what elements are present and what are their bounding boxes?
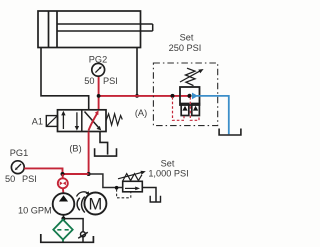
gauge PG1 (11, 161, 24, 174)
node junction pump discharge right (87, 172, 91, 176)
coupling shaft (77, 197, 85, 213)
check cartridge right (192, 104, 200, 116)
motor M1 (84, 193, 106, 215)
wire pilot dashed (relief) (117, 189, 131, 198)
wire red pump node link (63, 173, 89, 175)
directional valve left-box up arrow (62, 114, 64, 129)
check valve CV1 (78, 232, 88, 242)
sequence valve adjust arrow (180, 71, 201, 82)
svg-text:A1: A1 (32, 117, 43, 127)
wire relief outlet (142, 188, 156, 202)
gauge PG2 (92, 63, 105, 76)
wire red pilot dashed (173, 97, 200, 120)
wire rod-end drop line (136, 48, 138, 96)
directional valve crossed path (red highlighted) (89, 113, 98, 131)
wire pump suction stub (63, 215, 65, 219)
shutoff valve (red circle) (58, 174, 68, 193)
check cartridge left (181, 104, 189, 116)
directional valve spring (106, 114, 122, 125)
sequence valve V2 block (180, 87, 200, 105)
pump P1 (53, 193, 75, 215)
wire to relief valve (89, 174, 123, 188)
svg-text:PG2: PG2 (89, 54, 107, 64)
dashed enclosure (sequence valve) (153, 63, 217, 126)
node junction pilot (115, 186, 119, 190)
blue outlet arrow (192, 93, 198, 100)
svg-text:10 GPM: 10 GPM (18, 206, 52, 216)
wire red riser to PG2 / valve port (98, 76, 100, 110)
tank symbol (blue return) (219, 129, 241, 136)
wire red PG1 branch (24, 168, 62, 174)
relief valve adjust arrow (118, 172, 143, 179)
svg-text:PG1: PG1 (10, 148, 28, 158)
svg-text:(A): (A) (135, 108, 147, 118)
tank T1 (reservoir) (41, 234, 94, 242)
node junction PG2 tee (97, 94, 101, 98)
cylinder C1 body (38, 11, 141, 48)
svg-text:Set: Set (161, 158, 175, 168)
filter F1 (suction strainer) (53, 219, 72, 242)
svg-text:50: 50 (84, 76, 94, 86)
directional valve DV1 body (58, 110, 107, 132)
svg-text:250 PSI: 250 PSI (169, 43, 202, 53)
relief valve RV1 spring (123, 174, 142, 181)
wire drain to tank (valve T port) (100, 132, 108, 155)
tank symbol (valve drain) (95, 148, 117, 156)
svg-text:PSI: PSI (22, 174, 37, 184)
solenoid A1 (46, 116, 57, 127)
wire red pressure riser (B) (88, 132, 90, 175)
node junction pump discharge left (61, 172, 65, 176)
wire red main line (rod side, y=95.9) (99, 95, 190, 97)
cylinder rod (57, 24, 153, 31)
svg-text:50: 50 (5, 174, 15, 184)
directional valve crossed path (black) (85, 112, 100, 129)
node junction inside block (187, 94, 191, 98)
wire bypass to check valve (63, 219, 83, 232)
svg-text:M: M (89, 196, 103, 214)
directional valve divider (81, 110, 83, 132)
svg-text:1,000 PSI: 1,000 PSI (148, 168, 188, 178)
sequence valve V2 spring (186, 68, 196, 85)
wire blue tank return (197, 96, 229, 134)
directional valve left-box down arrow (76, 112, 78, 127)
tank symbol (relief drain) (150, 196, 160, 202)
svg-text:Set: Set (180, 32, 194, 42)
node junction pilot tee (171, 94, 175, 98)
node junction rod-end (135, 94, 139, 98)
svg-text:(B): (B) (69, 143, 81, 153)
rotation arrow (77, 192, 89, 197)
svg-text:PSI: PSI (103, 76, 118, 86)
relief valve RV1 body (123, 181, 143, 192)
wire cap-end line (cylinder to valve port A-top-left) (41, 48, 89, 110)
node junction suction tee (61, 217, 65, 221)
